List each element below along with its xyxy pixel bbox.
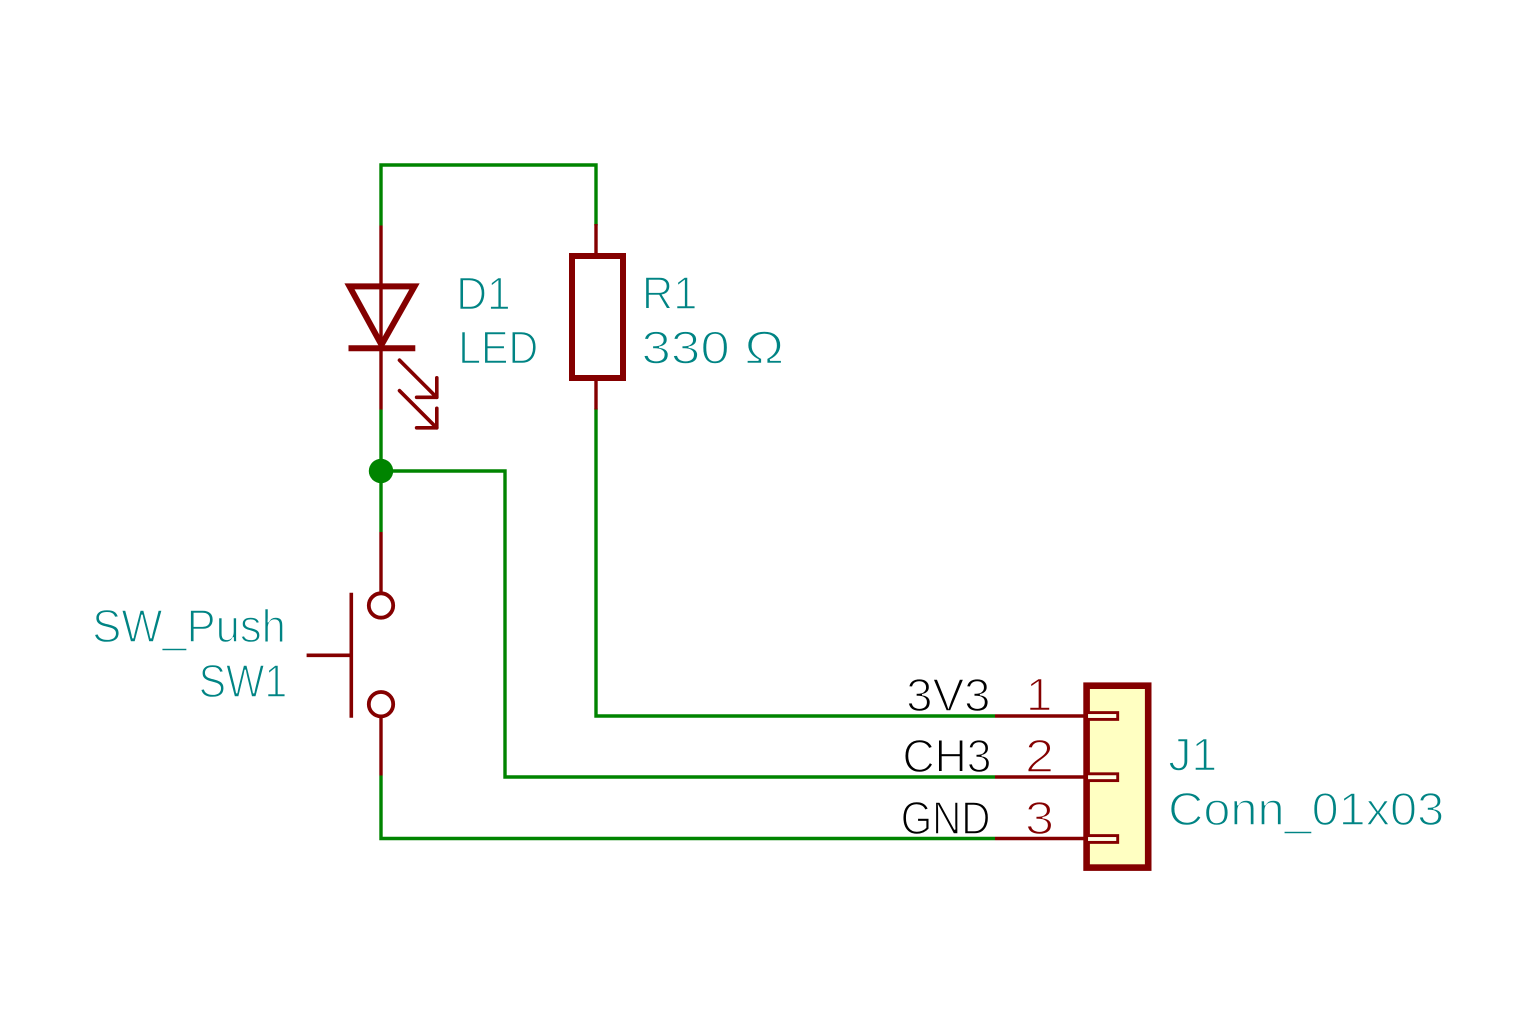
anode/cathode axis line: [379, 286, 382, 409]
svg-text:2: 2: [1025, 730, 1054, 782]
switch SW1: [307, 532, 394, 776]
svg-text:GND: GND: [901, 792, 991, 844]
J1 pin 1 tab: [1087, 713, 1118, 720]
J1 pin 2 tab: [1087, 774, 1118, 781]
wire SW1 bottom to GND pin 3: [381, 776, 995, 839]
connector J1 body: [1087, 686, 1149, 868]
cathode bar: [349, 345, 416, 351]
wire junction to CH3 pin 2: [381, 471, 995, 777]
LED D1: [349, 226, 437, 428]
pin 1 (anode, top): [379, 226, 382, 287]
wire R1 bottom to 3V3 pin 1: [596, 409, 995, 717]
bottom contact circle: [369, 692, 393, 716]
triangle body: [350, 286, 415, 344]
svg-text:LED: LED: [458, 322, 538, 374]
J1 pin 2 line: [995, 775, 1086, 778]
resistor R1: [572, 224, 623, 410]
light arrow 2: [400, 391, 437, 428]
pin 1 (top): [594, 224, 597, 256]
junction node: [369, 459, 393, 483]
svg-text:CH3: CH3: [903, 730, 992, 782]
svg-text:1: 1: [1026, 668, 1053, 720]
svg-text:3: 3: [1025, 792, 1054, 844]
svg-text:SW_Push: SW_Push: [92, 600, 285, 652]
J1 pin 1 line: [995, 714, 1086, 717]
pin 1 (top): [379, 532, 382, 594]
actuator bar: [349, 593, 353, 718]
svg-text:330 Ω: 330 Ω: [642, 322, 785, 374]
svg-text:J1: J1: [1168, 728, 1217, 780]
svg-text:R1: R1: [642, 267, 698, 319]
J1 pin 3 line: [995, 837, 1086, 840]
pin 2 (bottom): [379, 716, 382, 776]
svg-text:D1: D1: [456, 268, 511, 320]
wire top loop from LED anode to R1 top: [381, 165, 596, 226]
light arrow 1: [400, 360, 437, 397]
pin 2 (bottom): [594, 378, 597, 410]
J1 pin 3 tab: [1087, 836, 1118, 843]
actuator stub: [307, 653, 352, 657]
svg-text:Conn_01x03: Conn_01x03: [1168, 783, 1444, 835]
wire LED cathode down through junction to SW1: [379, 410, 382, 533]
svg-text:3V3: 3V3: [906, 669, 990, 721]
top contact circle: [369, 593, 393, 617]
svg-text:SW1: SW1: [199, 655, 288, 707]
body: [572, 256, 623, 378]
